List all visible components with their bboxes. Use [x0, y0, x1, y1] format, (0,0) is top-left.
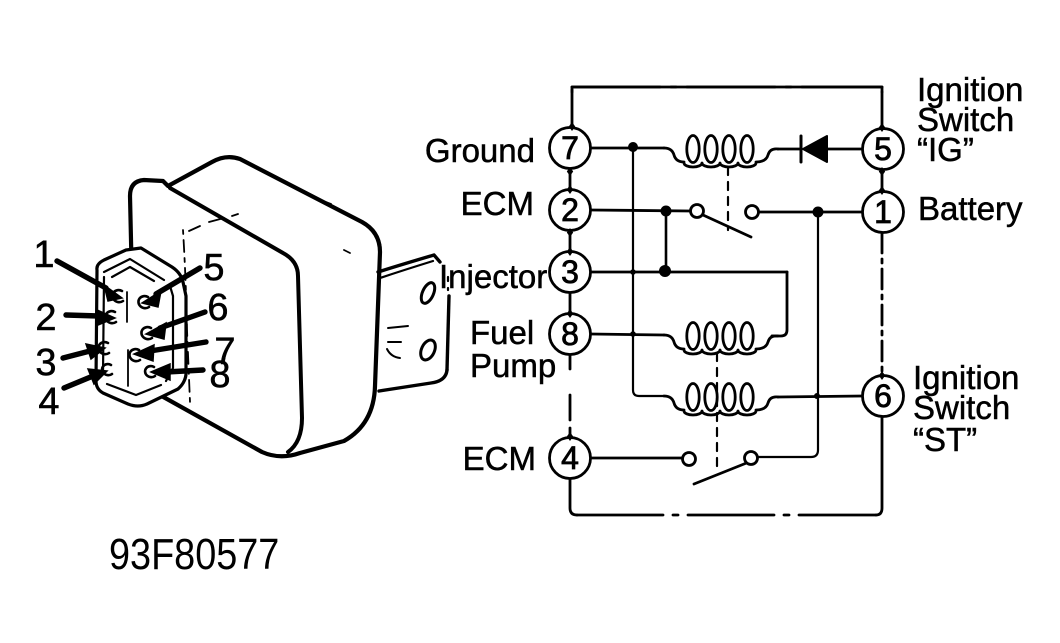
vertical wire v1: row1 junction down to coil L3	[633, 147, 664, 396]
coil L2	[664, 335, 778, 354]
junction row1 (7 to v1)	[628, 142, 638, 152]
connector top face inner edge	[104, 259, 164, 281]
wire row3 corner down to coil L2 right end	[772, 272, 787, 336]
switch S1 contact right	[746, 206, 759, 219]
arrow to pin 6	[160, 312, 205, 328]
terminal 8 (Fuel Pump)	[550, 314, 591, 355]
wire row3: terminal 3 to corner	[591, 271, 787, 274]
svg-text:8: 8	[561, 316, 579, 352]
wire coil L1 to diode	[778, 148, 801, 151]
terminal 6 (Ignition Switch ST)	[863, 376, 904, 417]
connector pin 5	[138, 296, 149, 308]
border-to-terminal tick marks	[567, 122, 885, 441]
coil L1 (relay coil)	[664, 148, 778, 167]
svg-text:3: 3	[35, 342, 56, 384]
mechanical link dashed L2/L3 to S2	[716, 353, 718, 472]
relay border right stubs	[881, 376, 884, 417]
svg-text:8: 8	[209, 354, 230, 396]
svg-text:ECM: ECM	[461, 185, 534, 222]
terminal 3 (Injector)	[550, 252, 591, 293]
arrow to pin 5	[156, 268, 200, 294]
wire coil L3 to terminal 6	[778, 396, 862, 397]
svg-text:2: 2	[35, 297, 56, 339]
svg-text:5: 5	[203, 247, 224, 289]
arrow to pin 7	[150, 342, 206, 351]
vertical wire v2: row2 junction to row3 junction	[665, 211, 668, 271]
mounting bracket bottom edge	[379, 370, 447, 391]
connector inner frame	[103, 277, 173, 395]
connector pin 1	[112, 290, 123, 302]
connector pin 3	[98, 342, 109, 354]
wire row2: terminal 2 to switch S1	[591, 210, 690, 211]
svg-text:“ST”: “ST”	[913, 421, 977, 458]
svg-text:“IG”: “IG”	[917, 131, 974, 168]
junction coil L3 to v3	[814, 393, 820, 399]
bracket hole upper	[419, 281, 438, 306]
switch S2 blade	[694, 462, 749, 484]
relay left face edge	[183, 230, 190, 402]
arrow to pin 8	[166, 370, 203, 372]
svg-text:6: 6	[874, 378, 892, 414]
svg-text:Pump: Pump	[470, 347, 556, 384]
terminal 5 (Ignition Switch IG)	[863, 129, 904, 170]
terminal pin numbers	[561, 130, 892, 476]
connector pin 6	[141, 327, 152, 339]
pin callout arrows	[57, 261, 206, 388]
svg-text:Fuel: Fuel	[470, 314, 534, 351]
svg-text:Ground: Ground	[425, 132, 535, 169]
mechanical link dashed L1 to S1	[727, 167, 729, 230]
svg-text:Battery: Battery	[918, 190, 1023, 227]
body shading marks near bracket	[387, 326, 408, 358]
arrow to pin 3	[63, 351, 90, 358]
connector pin 2	[105, 311, 116, 323]
svg-text:7: 7	[561, 130, 579, 166]
connector pin 8	[145, 366, 155, 377]
arrow to pin 4	[64, 376, 93, 388]
svg-text:Injector: Injector	[439, 258, 547, 295]
wire diode to terminal 5	[827, 148, 862, 151]
junction row2 (2 to v2)	[661, 206, 672, 217]
bracket hole lower	[418, 338, 438, 362]
svg-text:4: 4	[38, 381, 59, 423]
svg-text:1: 1	[874, 194, 892, 230]
svg-text:6: 6	[207, 287, 228, 329]
wire row6: terminal 4 to switch S2	[591, 457, 682, 460]
vertical wire v3: battery junction down to switch S2	[758, 212, 818, 457]
wire row1: terminal 7 to coil L1	[591, 147, 664, 150]
relay illustration	[96, 157, 449, 456]
coil L3	[664, 396, 778, 415]
switch S1 contact left	[691, 205, 704, 218]
switch S2 contact right	[745, 452, 758, 465]
terminal 4 (ECM)	[550, 438, 591, 479]
svg-text:ECM: ECM	[463, 440, 536, 477]
switch S1 blade	[703, 215, 751, 237]
relay outline box (dash-dot phantom border) top	[572, 87, 882, 92]
svg-text:93F80577: 93F80577	[109, 529, 279, 578]
schematic labels	[425, 71, 1024, 477]
connector pin 7	[129, 349, 140, 361]
junction battery (1 to v3)	[813, 207, 824, 218]
terminal 1 (Battery)	[863, 192, 904, 233]
wire row4: terminal 8 to coil L2	[591, 334, 664, 335]
svg-text:5: 5	[874, 131, 892, 167]
svg-text:2: 2	[561, 192, 579, 228]
relay border bottom (dash-dot)	[577, 514, 876, 517]
terminal 7 (Ground)	[550, 128, 591, 169]
diode D1	[800, 136, 803, 162]
junction row3 (3 to v2)	[659, 265, 671, 277]
mounting bracket top edge (double line)	[378, 255, 440, 272]
svg-text:1: 1	[33, 234, 54, 276]
relay front face top edge and vertical corner edge	[170, 188, 302, 452]
relay body silhouette	[130, 157, 380, 456]
connector pin 4	[102, 364, 112, 375]
arrow to pin 1	[57, 261, 106, 288]
crossing dot v1 row3	[630, 269, 636, 275]
connector block outline	[96, 248, 186, 406]
connector middle divider	[127, 292, 128, 386]
wire switch S1 to terminal 1	[759, 211, 862, 214]
mounting bracket right edge	[447, 296, 449, 370]
scan marks on faces	[189, 200, 350, 253]
relay border left stubs between terminals	[571, 90, 574, 127]
arrow to pin 2	[66, 315, 99, 316]
switch S2 contact left	[683, 453, 696, 466]
svg-text:3: 3	[561, 254, 579, 290]
terminal 2 (ECM)	[550, 190, 591, 231]
crossing dot v1 row4	[630, 331, 636, 337]
svg-text:4: 4	[561, 440, 579, 476]
pin callout numbers	[33, 234, 235, 423]
